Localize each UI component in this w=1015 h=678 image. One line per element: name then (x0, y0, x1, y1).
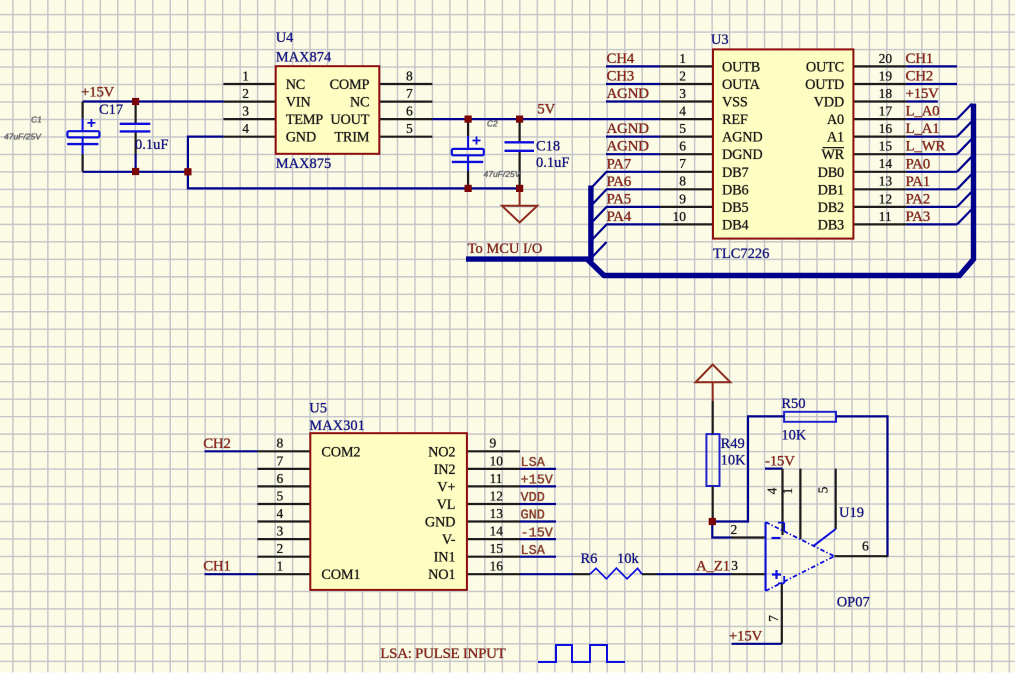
svg-text:TEMP: TEMP (286, 112, 324, 128)
svg-text:OUTC: OUTC (806, 59, 844, 75)
svg-text:-15V: -15V (765, 454, 795, 470)
svg-text:OUTD: OUTD (805, 77, 844, 93)
svg-text:AGND: AGND (722, 130, 763, 146)
svg-text:NO1: NO1 (428, 567, 455, 583)
svg-text:7: 7 (406, 86, 413, 101)
svg-text:5V: 5V (537, 102, 555, 118)
svg-text:1: 1 (679, 51, 686, 66)
svg-text:2: 2 (242, 86, 249, 101)
svg-text:5: 5 (276, 488, 283, 503)
svg-text:C18: C18 (536, 139, 560, 155)
svg-text:GND: GND (521, 509, 545, 524)
svg-text:MAX301: MAX301 (309, 418, 365, 434)
svg-text:+15V: +15V (81, 85, 115, 101)
svg-text:11: 11 (879, 209, 892, 224)
svg-text:DB4: DB4 (722, 217, 748, 233)
svg-text:8: 8 (406, 68, 413, 83)
svg-text:VDD: VDD (521, 491, 545, 506)
svg-text:GND: GND (286, 130, 316, 146)
svg-text:4: 4 (242, 121, 249, 136)
svg-text:V-: V- (442, 532, 456, 548)
svg-text:14: 14 (490, 524, 504, 539)
svg-text:CH1: CH1 (906, 51, 933, 67)
svg-text:AGND: AGND (607, 86, 650, 102)
svg-text:12: 12 (490, 488, 504, 503)
svg-text:10: 10 (673, 209, 687, 224)
svg-text:17: 17 (879, 104, 893, 119)
svg-text:DGND: DGND (722, 147, 763, 163)
svg-text:LSA: LSA (521, 456, 546, 471)
svg-text:-15V: -15V (521, 526, 554, 541)
svg-text:1: 1 (242, 68, 249, 83)
svg-text:5: 5 (406, 121, 413, 136)
svg-text:3: 3 (276, 524, 283, 539)
svg-text:CH3: CH3 (607, 69, 634, 85)
svg-text:C17: C17 (99, 102, 123, 118)
svg-text:47uF/25V: 47uF/25V (484, 169, 522, 179)
svg-text:NC: NC (350, 95, 369, 111)
svg-text:TLC7226: TLC7226 (713, 246, 769, 262)
svg-text:+15V: +15V (906, 86, 940, 102)
svg-text:47uF/25V: 47uF/25V (4, 132, 42, 142)
svg-text:PA1: PA1 (906, 174, 930, 190)
svg-text:2: 2 (276, 541, 283, 556)
svg-text:3: 3 (242, 104, 249, 119)
svg-text:R49: R49 (721, 436, 745, 452)
svg-text:4: 4 (679, 104, 686, 119)
svg-text:WR: WR (821, 147, 844, 163)
svg-text:A_Z1: A_Z1 (696, 559, 730, 575)
svg-text:C2: C2 (487, 119, 498, 129)
svg-text:REF: REF (722, 112, 748, 128)
svg-text:IN2: IN2 (434, 462, 456, 478)
svg-text:14: 14 (879, 156, 893, 171)
svg-text:CH1: CH1 (203, 559, 230, 575)
svg-text:18: 18 (879, 86, 893, 101)
svg-text:OP07: OP07 (837, 595, 870, 611)
svg-text:DB1: DB1 (818, 182, 844, 198)
svg-text:DB3: DB3 (818, 217, 844, 233)
svg-text:VIN: VIN (286, 95, 311, 111)
svg-text:LSA: LSA (521, 544, 546, 559)
svg-text:GND: GND (425, 515, 455, 531)
svg-text:U4: U4 (276, 30, 294, 46)
svg-text:R50: R50 (781, 396, 805, 412)
svg-text:R6: R6 (581, 551, 598, 567)
svg-text:To MCU I/O: To MCU I/O (468, 241, 543, 257)
svg-text:PA7: PA7 (607, 156, 632, 172)
svg-text:PA4: PA4 (607, 209, 632, 225)
svg-text:U19: U19 (839, 505, 864, 521)
svg-text:UOUT: UOUT (330, 112, 369, 128)
svg-text:+15V: +15V (729, 629, 763, 645)
svg-text:U3: U3 (711, 32, 729, 48)
svg-text:2: 2 (679, 68, 686, 83)
svg-text:PA6: PA6 (607, 174, 632, 190)
svg-text:CH2: CH2 (906, 69, 933, 85)
svg-text:NC: NC (286, 77, 305, 93)
svg-text:0.1uF: 0.1uF (135, 137, 168, 153)
svg-text:7: 7 (276, 453, 283, 468)
svg-text:VSS: VSS (722, 95, 748, 111)
svg-text:16: 16 (879, 121, 893, 136)
svg-text:8: 8 (679, 174, 686, 189)
svg-text:COM1: COM1 (321, 567, 360, 583)
svg-text:COM2: COM2 (321, 444, 360, 460)
svg-text:+15V: +15V (521, 474, 554, 489)
svg-text:5: 5 (679, 121, 686, 136)
svg-text:L_A0: L_A0 (906, 104, 940, 120)
svg-text:DB0: DB0 (818, 165, 844, 181)
svg-text:DB7: DB7 (722, 165, 748, 181)
svg-text:13: 13 (879, 174, 893, 189)
svg-text:19: 19 (879, 68, 893, 83)
svg-text:7: 7 (679, 156, 686, 171)
svg-text:DB6: DB6 (722, 182, 748, 198)
svg-text:MAX875: MAX875 (276, 156, 332, 172)
svg-text:6: 6 (406, 104, 413, 119)
svg-text:3: 3 (731, 558, 738, 573)
svg-text:9: 9 (490, 436, 497, 451)
svg-text:A0: A0 (827, 112, 844, 128)
svg-text:15: 15 (490, 541, 504, 556)
svg-text:CH4: CH4 (607, 51, 635, 67)
svg-text:2: 2 (731, 522, 738, 537)
svg-text:OUTA: OUTA (722, 77, 761, 93)
svg-text:16: 16 (490, 559, 504, 574)
svg-text:1: 1 (780, 488, 795, 495)
svg-text:AGND: AGND (607, 121, 650, 137)
svg-text:V+: V+ (437, 479, 455, 495)
svg-text:TRIM: TRIM (334, 130, 369, 146)
svg-text:10k: 10k (617, 551, 640, 567)
svg-text:10K: 10K (721, 453, 747, 469)
svg-text:6: 6 (276, 471, 283, 486)
svg-text:A1: A1 (827, 130, 844, 146)
svg-text:13: 13 (490, 506, 504, 521)
svg-text:5: 5 (816, 486, 831, 493)
svg-text:COMP: COMP (330, 77, 370, 93)
svg-text:L_WR: L_WR (906, 139, 946, 155)
svg-text:20: 20 (879, 51, 893, 66)
svg-text:PA0: PA0 (906, 156, 930, 172)
svg-text:OUTB: OUTB (722, 59, 760, 75)
svg-text:6: 6 (862, 539, 869, 554)
svg-text:MAX874: MAX874 (276, 50, 332, 66)
svg-text:LSA: PULSE INPUT: LSA: PULSE INPUT (380, 646, 505, 662)
svg-text:4: 4 (276, 506, 283, 521)
svg-text:9: 9 (679, 191, 686, 206)
svg-text:AGND: AGND (607, 139, 650, 155)
svg-text:DB5: DB5 (722, 200, 748, 216)
svg-text:11: 11 (490, 471, 503, 486)
svg-text:3: 3 (679, 86, 686, 101)
svg-text:NO2: NO2 (428, 444, 455, 460)
svg-text:VL: VL (437, 497, 456, 513)
svg-text:0.1uF: 0.1uF (536, 155, 569, 171)
svg-text:U5: U5 (309, 401, 327, 417)
svg-text:C1: C1 (31, 115, 42, 125)
svg-text:DB2: DB2 (818, 200, 844, 216)
svg-text:15: 15 (879, 139, 893, 154)
svg-text:PA3: PA3 (906, 209, 930, 225)
svg-text:6: 6 (679, 139, 686, 154)
svg-text:1: 1 (276, 559, 283, 574)
svg-text:8: 8 (276, 436, 283, 451)
svg-text:PA5: PA5 (607, 191, 631, 207)
svg-text:4: 4 (765, 487, 780, 494)
svg-text:CH2: CH2 (203, 436, 230, 452)
svg-text:PA2: PA2 (906, 191, 930, 207)
svg-text:7: 7 (766, 615, 781, 622)
svg-text:12: 12 (879, 191, 893, 206)
svg-text:L_A1: L_A1 (906, 121, 940, 137)
svg-text:10: 10 (490, 453, 504, 468)
svg-text:IN1: IN1 (434, 550, 456, 566)
svg-text:VDD: VDD (814, 95, 844, 111)
svg-text:10K: 10K (781, 428, 807, 444)
